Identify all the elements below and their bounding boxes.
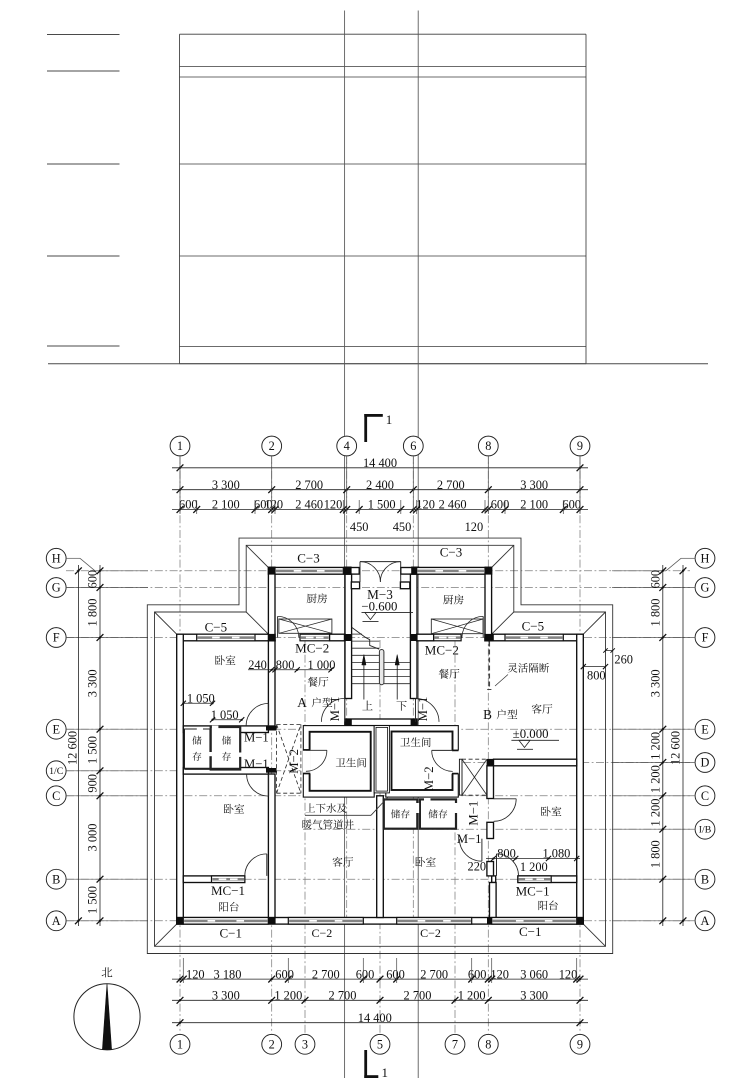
storage R1 xyxy=(391,809,410,818)
svg-text:1 800: 1 800 xyxy=(648,599,662,627)
dim 1050 upper xyxy=(183,702,212,704)
room label bathroom left xyxy=(336,758,366,768)
svg-text:−0.600: −0.600 xyxy=(361,600,397,614)
svg-text:12 600: 12 600 xyxy=(65,731,79,765)
svg-text:H: H xyxy=(701,551,710,565)
room label balcony right xyxy=(538,900,557,910)
column stair-south R xyxy=(411,719,418,726)
wall: stair west wall xyxy=(345,574,352,698)
wall: B wall right xyxy=(518,876,577,883)
svg-text:G: G xyxy=(52,581,61,595)
svg-text:120: 120 xyxy=(465,520,484,534)
top dimension row 3 xyxy=(172,509,588,511)
svg-text:1 500: 1 500 xyxy=(86,886,100,914)
svg-text:C−3: C−3 xyxy=(297,551,320,566)
svg-text:2 700: 2 700 xyxy=(312,967,340,981)
svg-text:2 700: 2 700 xyxy=(404,989,432,1003)
column axis9/A xyxy=(576,917,583,924)
svg-text:1 200: 1 200 xyxy=(648,765,662,793)
apron inner outline xyxy=(155,545,606,946)
svg-text:B: B xyxy=(483,707,492,722)
room label kitchen right xyxy=(443,595,463,605)
wall: F wall seg at axis-4 xyxy=(330,634,346,641)
window MC-2 right window xyxy=(434,634,461,641)
window C-1 right xyxy=(492,918,577,925)
storage south bold band xyxy=(185,768,241,770)
door lobby M-1 lower xyxy=(268,774,270,796)
window C-5 left xyxy=(197,634,255,641)
svg-text:120: 120 xyxy=(416,498,435,512)
stair down arrow xyxy=(396,661,398,700)
svg-text:M−1: M−1 xyxy=(328,697,342,722)
column stair-south L xyxy=(345,719,352,726)
section symbol top xyxy=(364,414,367,442)
pipe shaft between bathrooms xyxy=(374,726,389,793)
svg-text:9: 9 xyxy=(577,1037,583,1051)
svg-text:3 060: 3 060 xyxy=(520,967,548,981)
wall: axis-2 wall upper xyxy=(268,568,275,641)
stair treads left flight xyxy=(352,633,362,635)
svg-text:A: A xyxy=(701,914,710,928)
window C-3 right xyxy=(417,568,485,575)
top axis circles 1 2 4 6 8 9 xyxy=(170,436,190,456)
svg-text:600: 600 xyxy=(275,967,294,981)
svg-text:I/B: I/B xyxy=(699,825,712,836)
svg-text:M−2: M−2 xyxy=(422,766,436,791)
svg-text:600: 600 xyxy=(468,967,487,981)
stair down label xyxy=(396,701,406,711)
svg-text:F: F xyxy=(53,631,60,645)
apron corner diagonals xyxy=(155,924,177,946)
room label bathroom right xyxy=(400,737,430,747)
svg-text:1 200: 1 200 xyxy=(520,860,548,874)
svg-text:1/C: 1/C xyxy=(49,766,63,777)
svg-text:120: 120 xyxy=(559,967,578,981)
dims 240/800/1000 xyxy=(248,669,331,671)
column axis1/A xyxy=(176,917,183,924)
svg-text:1 200: 1 200 xyxy=(458,989,486,1003)
svg-text:F: F xyxy=(702,631,709,645)
bathroom right door gap xyxy=(451,750,459,773)
door stair M-1 right xyxy=(415,698,417,722)
left vertical dimensions xyxy=(77,565,79,926)
column 1C/axis2 junction xyxy=(266,768,277,773)
door MC-2 right leaf xyxy=(482,616,484,637)
svg-text:120: 120 xyxy=(265,498,284,512)
section symbol bottom xyxy=(364,1050,367,1078)
left axis circles xyxy=(46,578,66,598)
stair break line xyxy=(352,627,380,649)
storage left 2 xyxy=(211,727,241,770)
svg-text:3 300: 3 300 xyxy=(212,478,240,492)
column axis2/A xyxy=(268,917,276,924)
svg-text:±0.000: ±0.000 xyxy=(513,727,549,741)
stair up arrow xyxy=(363,661,365,700)
storage L1 xyxy=(192,736,201,745)
svg-text:A: A xyxy=(297,695,307,710)
room label bedroom BC xyxy=(415,857,435,867)
bottom axis circles 1 2 3 5 7 8 9 xyxy=(170,1034,190,1054)
bottom extension lines xyxy=(182,958,184,983)
svg-text:M−1: M−1 xyxy=(416,697,430,722)
room label bedroom TL xyxy=(215,655,235,665)
window C-3 left xyxy=(275,568,343,575)
right vertical dimensions xyxy=(682,565,684,926)
svg-text:3 000: 3 000 xyxy=(86,824,100,852)
svg-text:2 100: 2 100 xyxy=(212,498,240,512)
svg-text:600: 600 xyxy=(386,967,405,981)
bottom dimension row 1 xyxy=(172,978,588,980)
top dimension row 2 xyxy=(172,489,588,491)
svg-text:C−5: C−5 xyxy=(522,619,545,634)
svg-text:120: 120 xyxy=(186,967,205,981)
svg-text:G: G xyxy=(701,581,710,595)
svg-text:2: 2 xyxy=(269,1037,275,1051)
svg-text:800: 800 xyxy=(497,847,516,861)
wall: axis-1 wall xyxy=(177,634,184,924)
column axis8/A xyxy=(487,917,494,924)
room label living right xyxy=(532,704,553,714)
column E/axis2 junction xyxy=(266,726,277,731)
svg-text:3 300: 3 300 xyxy=(520,478,548,492)
svg-text:B: B xyxy=(701,872,709,886)
column D junction xyxy=(487,759,494,766)
svg-text:MC−2: MC−2 xyxy=(295,640,329,655)
bottom dimension row 3: 14 400 xyxy=(172,1022,588,1024)
svg-text:2 100: 2 100 xyxy=(520,498,548,512)
bathroom right outer xyxy=(386,726,459,798)
room label balcony left xyxy=(219,902,238,912)
svg-text:260: 260 xyxy=(614,653,633,667)
svg-text:4: 4 xyxy=(344,439,350,453)
wall: H wall right xyxy=(401,568,492,575)
bottom dimension row 2 xyxy=(172,999,588,1001)
label flexible partition xyxy=(508,663,549,673)
svg-text:M−1: M−1 xyxy=(244,757,269,771)
svg-text:6: 6 xyxy=(410,439,416,453)
door MC-1 right door xyxy=(496,854,498,876)
window MC-1 left window xyxy=(212,876,245,883)
wall: E wall left xyxy=(183,726,268,733)
wall: stair east wall xyxy=(410,574,417,698)
wall: stair west jamb xyxy=(345,722,352,726)
svg-text:2 700: 2 700 xyxy=(329,989,357,1003)
svg-text:M−2: M−2 xyxy=(287,749,301,774)
wall: axis-8 wall upper xyxy=(485,568,492,641)
svg-text:2 700: 2 700 xyxy=(437,478,465,492)
svg-text:1 800: 1 800 xyxy=(648,840,662,868)
apron outer outline xyxy=(147,538,612,953)
svg-text:3: 3 xyxy=(302,1037,308,1051)
room label bedroom R xyxy=(541,806,561,816)
svg-text:M−1: M−1 xyxy=(467,801,481,826)
room label dining left xyxy=(308,677,329,687)
door bedroom-B door xyxy=(494,798,517,800)
svg-text:12 600: 12 600 xyxy=(669,731,683,765)
wall: F wall right xyxy=(485,634,583,641)
wall: bedroom-B west wall seg3 xyxy=(487,862,494,876)
section line 1 (right) xyxy=(417,11,419,1079)
svg-text:800: 800 xyxy=(587,668,606,682)
svg-text:1 200: 1 200 xyxy=(274,989,302,1003)
svg-text:D: D xyxy=(701,756,710,770)
room label bedroom BL xyxy=(224,804,244,814)
wall: bedroom-B west wall seg2 xyxy=(487,822,494,838)
svg-text:3 180: 3 180 xyxy=(214,967,242,981)
tall X-box left (duct) xyxy=(277,724,301,726)
svg-text:1 500: 1 500 xyxy=(86,736,100,764)
kitchen flue left xyxy=(279,619,332,633)
storage right 2 xyxy=(420,799,456,828)
svg-text:600: 600 xyxy=(86,570,100,589)
svg-text:E: E xyxy=(701,722,709,736)
svg-text:1: 1 xyxy=(386,412,393,427)
wall: B wall left xyxy=(183,876,245,883)
column axis8/F xyxy=(484,634,493,641)
stair treads right flight xyxy=(384,661,411,663)
svg-text:220: 220 xyxy=(468,860,487,874)
room label kitchen left xyxy=(307,593,327,603)
wall: axis-2 wall low xyxy=(268,774,275,918)
svg-text:1 050: 1 050 xyxy=(211,708,239,722)
wall: A wall xyxy=(177,918,584,925)
entrance M-3 double door xyxy=(359,562,361,582)
svg-text:600: 600 xyxy=(648,570,662,589)
flexible partition dashed xyxy=(488,642,490,690)
wall: axis-9 wall xyxy=(577,634,584,924)
svg-text:MC−1: MC−1 xyxy=(516,884,550,899)
storage right 1 xyxy=(384,799,418,828)
svg-text:C: C xyxy=(52,789,60,803)
svg-text:1 000: 1 000 xyxy=(308,658,336,672)
svg-text:900: 900 xyxy=(86,774,100,793)
svg-text:1 800: 1 800 xyxy=(86,599,100,627)
kitchen flue right xyxy=(431,619,483,634)
floor level ticks xyxy=(47,34,120,36)
column axis2/H xyxy=(268,567,275,575)
svg-text:1: 1 xyxy=(177,1037,183,1051)
svg-text:E: E xyxy=(52,722,60,736)
axis grid lines xyxy=(179,456,181,1033)
bathroom right inner bold xyxy=(392,732,453,791)
column axis6/F xyxy=(411,634,418,641)
svg-text:600: 600 xyxy=(562,498,581,512)
wall: B wall right jamb xyxy=(492,876,496,883)
svg-text:1: 1 xyxy=(381,1065,388,1080)
svg-text:M−1: M−1 xyxy=(244,731,269,745)
svg-text:5: 5 xyxy=(377,1037,383,1051)
window MC-2 left window xyxy=(300,634,330,641)
svg-text:7: 7 xyxy=(452,1037,458,1051)
svg-text:14 400: 14 400 xyxy=(363,456,397,470)
stair center rail xyxy=(379,650,384,685)
dim 800 apron xyxy=(583,666,605,668)
svg-text:240: 240 xyxy=(248,658,267,672)
svg-text:3 300: 3 300 xyxy=(86,669,100,697)
svg-text:2: 2 xyxy=(269,439,275,453)
svg-text:M−1: M−1 xyxy=(457,832,482,846)
svg-text:H: H xyxy=(52,551,61,565)
svg-text:C−2: C−2 xyxy=(312,926,333,940)
svg-text:600: 600 xyxy=(179,498,198,512)
window C-1 left xyxy=(183,918,268,925)
bathroom left door gap xyxy=(303,750,311,774)
svg-text:8: 8 xyxy=(485,439,491,453)
column axis4/F xyxy=(344,634,351,641)
elevation drawing xyxy=(180,33,587,35)
svg-text:600: 600 xyxy=(356,967,375,981)
svg-text:2 460: 2 460 xyxy=(295,498,323,512)
svg-text:C: C xyxy=(701,789,709,803)
wall: stair south wall xyxy=(345,719,417,726)
window C-2 left xyxy=(288,918,363,925)
svg-text:1 050: 1 050 xyxy=(187,692,215,706)
wall: 1/C wall xyxy=(183,768,268,775)
svg-text:1 500: 1 500 xyxy=(368,498,396,512)
svg-text:1 080: 1 080 xyxy=(542,847,570,861)
svg-text:1 200: 1 200 xyxy=(648,799,662,827)
column axis4/H xyxy=(344,567,352,575)
svg-text:1 200: 1 200 xyxy=(648,732,662,760)
stair up label xyxy=(362,701,372,711)
window C-2 right xyxy=(397,918,472,925)
duct note line1 xyxy=(305,803,346,813)
wall: balcony-R west wall xyxy=(490,883,497,918)
svg-text:2 700: 2 700 xyxy=(420,967,448,981)
svg-text:450: 450 xyxy=(350,520,369,534)
svg-text:14 400: 14 400 xyxy=(358,1011,392,1025)
wall: axis-2 wall mid xyxy=(268,641,275,726)
X-box right xyxy=(462,758,487,760)
wall: vestibule stub right xyxy=(400,582,409,589)
svg-text:2 460: 2 460 xyxy=(439,498,467,512)
wall: bedroom-B west wall seg1 xyxy=(487,766,494,799)
bathroom left inner bold xyxy=(310,732,371,791)
svg-text:C−3: C−3 xyxy=(440,545,463,560)
svg-text:2 700: 2 700 xyxy=(295,478,323,492)
right axis circles xyxy=(695,578,715,598)
dims 800/1080/1200/220 right bedroom xyxy=(486,858,580,860)
duct note line2 xyxy=(302,819,353,829)
door stair M-1 left xyxy=(344,698,346,722)
svg-text:B: B xyxy=(52,872,60,886)
svg-text:MC−1: MC−1 xyxy=(211,883,245,898)
storage left 1 xyxy=(185,729,210,769)
section line 1 (left) xyxy=(344,11,346,1079)
door bathroom M-2 left xyxy=(306,749,327,751)
column axis8/H xyxy=(485,567,492,575)
svg-text:8: 8 xyxy=(485,1037,491,1051)
storage R2 xyxy=(429,809,448,818)
wall: F wall seg at axis-6 xyxy=(417,634,434,641)
window C-5 right xyxy=(505,634,563,641)
svg-text:1: 1 xyxy=(177,439,183,453)
svg-text:3 300: 3 300 xyxy=(212,989,240,1003)
wall: H wall left xyxy=(268,568,359,575)
svg-text:C−1: C−1 xyxy=(519,924,542,939)
wall: D wall xyxy=(494,759,577,766)
ground line xyxy=(48,363,708,365)
wall: axis-5 wall xyxy=(377,796,384,918)
svg-text:120: 120 xyxy=(490,967,509,981)
bathroom left outer xyxy=(303,726,374,798)
door MC-2 left leaf xyxy=(277,616,279,637)
svg-text:800: 800 xyxy=(276,658,295,672)
svg-text:3 300: 3 300 xyxy=(648,669,662,697)
window MC-1 right window xyxy=(518,876,551,883)
door lobby M-1 upper xyxy=(268,703,270,726)
svg-text:A: A xyxy=(52,914,61,928)
north arrow xyxy=(74,984,140,1050)
wall: stair east jamb xyxy=(410,722,417,726)
top dimension row 1: 14 400 xyxy=(172,467,588,469)
door hall M-1 door xyxy=(481,839,483,862)
svg-text:C−2: C−2 xyxy=(420,926,441,940)
storage L2 xyxy=(222,736,231,745)
svg-text:MC−2: MC−2 xyxy=(425,642,459,657)
svg-text:C−5: C−5 xyxy=(205,619,228,634)
svg-text:C−1: C−1 xyxy=(219,925,242,940)
svg-text:450: 450 xyxy=(393,520,412,534)
column axis2/F xyxy=(268,634,275,641)
column axis6/H xyxy=(411,567,419,575)
dim 1050 lower xyxy=(213,719,242,721)
room label dining right xyxy=(439,669,460,679)
X-box west wall (right unit) xyxy=(459,759,462,795)
svg-text:9: 9 xyxy=(577,439,583,453)
svg-text:3 300: 3 300 xyxy=(520,989,548,1003)
wall: F wall left xyxy=(177,634,275,641)
wall: vestibule stub left xyxy=(351,582,359,589)
door bathroom M-2 right xyxy=(432,749,453,751)
room label living left xyxy=(333,857,354,867)
door MC-1 left door xyxy=(266,854,268,876)
svg-text:2 400: 2 400 xyxy=(366,478,394,492)
svg-text:120: 120 xyxy=(324,498,343,512)
top extension lines xyxy=(179,462,181,514)
svg-text:600: 600 xyxy=(491,498,510,512)
